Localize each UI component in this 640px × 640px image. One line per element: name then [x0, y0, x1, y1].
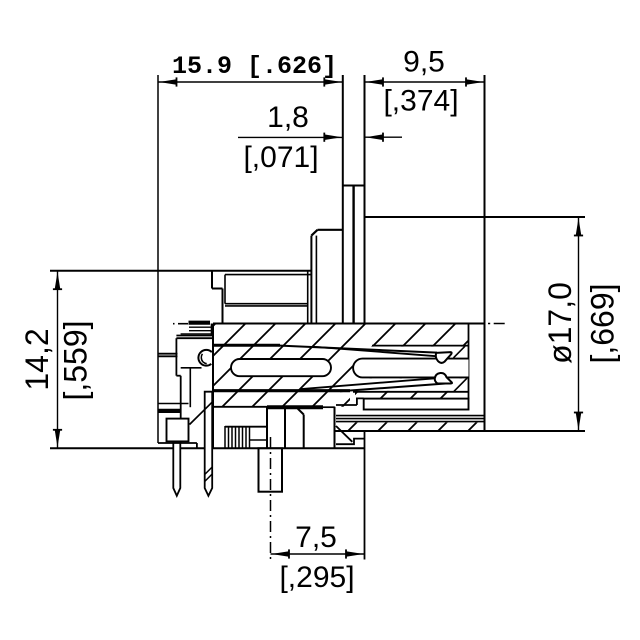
flange left side / 15.9 extension line: [342, 75, 344, 324]
dim 14.2 bottom arrowhead: [55, 430, 61, 448]
svg-text:[,669]: [,669]: [585, 283, 621, 363]
lower housing left wall: [303, 415, 305, 449]
hatch diagonal right of upper tip: [454, 346, 466, 358]
rear housing left wall step: [212, 288, 223, 290]
hatched section lower-left block: [213, 392, 350, 407]
upper contact spring taper bottom line: [312, 347, 436, 357]
flange right side lower part: [364, 217, 366, 324]
dim 9.5 left arrowhead: [366, 79, 384, 85]
insert top edge thick bar: [189, 321, 211, 325]
bottom step diagonal: [336, 426, 352, 442]
insert bottom edge thin left: [213, 406, 267, 408]
retaining clip inner arc: [201, 354, 206, 364]
dim 15.9 left arrowhead: [159, 79, 177, 85]
right bottom corner vertical / 7.5 extension: [364, 431, 366, 560]
hatch diagonal right of lower tip: [454, 378, 467, 391]
solder tab upper line: [158, 353, 178, 355]
bottom step outline: [334, 407, 336, 423]
hatched insert section (main block): [213, 324, 469, 392]
cable clamp cavity bottom: [225, 303, 308, 305]
dim 15.9 line: [158, 81, 343, 83]
svg-text:14,2: 14,2: [19, 328, 55, 390]
insert lower thin continuation: [323, 406, 335, 408]
front shell inner left wall: [315, 236, 317, 324]
dim 9.5 line: [365, 81, 485, 83]
bottom step left wall: [334, 423, 336, 449]
barrel bottom edge + dia17 bottom extension: [335, 430, 585, 432]
lower contact tip: [435, 373, 452, 384]
front shell top chamfer: [311, 230, 317, 236]
termination step jog: [176, 375, 180, 377]
upper contact spring taper top line: [272, 345, 437, 352]
dim 15.9 right arrowhead: [324, 79, 342, 85]
termination step lines: [176, 335, 212, 337]
solder pin 2 break marks: [205, 467, 213, 475]
hatched retaining-ring strip: [346, 423, 480, 431]
white clearance around lower contact spring: [352, 378, 469, 391]
rear housing inner top edge: [225, 274, 311, 276]
barrel right face: [484, 75, 486, 431]
rear housing left wall lower: [222, 289, 224, 324]
retaining clip half-disc: [198, 350, 211, 366]
rear housing left wall upper: [211, 271, 213, 289]
notch left step: [357, 398, 364, 405]
dim 7.5 line: [271, 553, 365, 555]
upper bottom line: [158, 442, 197, 444]
upper contact tip: [436, 352, 452, 363]
dim 1.8 right leader: [365, 136, 403, 138]
dim 1.8 left arrowhead: [324, 134, 342, 140]
white clearance around upper contact spring: [350, 347, 469, 359]
crimp comb teeth: [224, 426, 226, 448]
solder pin 1: [173, 443, 180, 496]
flange groove line: [352, 186, 354, 324]
svg-text:1,8: 1,8: [267, 101, 309, 134]
svg-text:15.9 [.626]: 15.9 [.626]: [172, 52, 337, 81]
center tab mid wall: [284, 407, 286, 448]
insert upper horizontal line right part: [372, 345, 469, 347]
bottom profile step: [196, 443, 198, 448]
dim 15.9 extension line left: [157, 75, 159, 443]
dim 1.8 left leader: [238, 136, 343, 138]
dim dia17 bottom arrowhead: [576, 413, 582, 431]
bottom step inner lines: [336, 439, 365, 445]
horizontal centerline left: [173, 323, 175, 325]
solder tab thick bar: [158, 409, 181, 413]
flange top edge: [343, 185, 365, 187]
svg-text:[,295]: [,295]: [279, 561, 354, 594]
left block bottom step line: [336, 404, 357, 406]
termination step vertical lower: [180, 376, 182, 443]
insert left wall: [212, 324, 214, 449]
front shell top edge: [318, 229, 343, 231]
rear housing right wall: [307, 271, 309, 324]
lock washer notch: [364, 399, 469, 410]
washer lines: [336, 415, 485, 417]
dim dia17 top arrowhead: [576, 218, 582, 236]
dim 7.5 left arrowhead: [272, 551, 290, 557]
center tab left wall: [266, 407, 268, 448]
bottom edge + 14.2 bottom extension line: [50, 447, 365, 449]
svg-text:7,5: 7,5: [295, 521, 337, 554]
barrel top edge + dia17 top extension: [365, 216, 586, 218]
contact entry lines: [189, 326, 212, 328]
svg-text:[,374]: [,374]: [383, 85, 458, 118]
dim 1.8 right arrowhead: [366, 134, 384, 140]
dim 9.5 right arrowhead: [466, 79, 484, 85]
insert top edge: [213, 323, 485, 325]
svg-text:9,5: 9,5: [403, 46, 445, 79]
svg-text:[,071]: [,071]: [243, 141, 318, 174]
svg-text:[,559]: [,559]: [58, 320, 94, 400]
front shell outer left wall: [310, 236, 312, 324]
dim 7.5 right arrowhead: [346, 551, 364, 557]
cable clamp cavity left wall: [224, 275, 226, 304]
barrel inner face line: [468, 324, 470, 399]
rear housing top edge + 14.2 top extension line: [50, 270, 311, 272]
hatched section right lower strip: [355, 392, 468, 399]
center fastening pin: [259, 448, 283, 491]
crimp comb top edge: [225, 426, 267, 428]
pocket hatch diagonal: [190, 402, 213, 425]
insert upper horizontal line thick: [213, 344, 280, 347]
lower housing chamfer: [298, 409, 304, 415]
insert lower thick line: [267, 405, 323, 409]
comb step line: [250, 439, 268, 441]
solder tab lower line: [158, 355, 178, 357]
lower contact spring taper bottom line: [340, 383, 449, 391]
lower contact spring taper top line: [300, 378, 435, 389]
contact entry vertical: [211, 324, 213, 336]
left contact cavity (slot): [231, 359, 331, 376]
dim 14.2 top arrowhead: [55, 272, 61, 290]
horizontal centerline right: [488, 323, 507, 325]
insert bottom thick line: [213, 389, 350, 392]
insert bottom line right part: [353, 391, 469, 393]
center pin centerline: [270, 437, 272, 560]
cable clamp cavity bottom second line: [225, 305, 308, 307]
flange right side / 9.5 extension line: [364, 75, 366, 217]
termination step vertical upper: [175, 338, 177, 376]
step below screw: [181, 367, 202, 369]
solder pin 2: [205, 392, 213, 496]
svg-text:ø17,0: ø17,0: [542, 282, 578, 364]
left holder box: [167, 419, 189, 442]
dim dia17 line: [578, 217, 580, 431]
right contact cavity (slot): [353, 359, 468, 378]
thin line above bar: [158, 403, 189, 405]
dim 14.2 line: [57, 271, 59, 449]
